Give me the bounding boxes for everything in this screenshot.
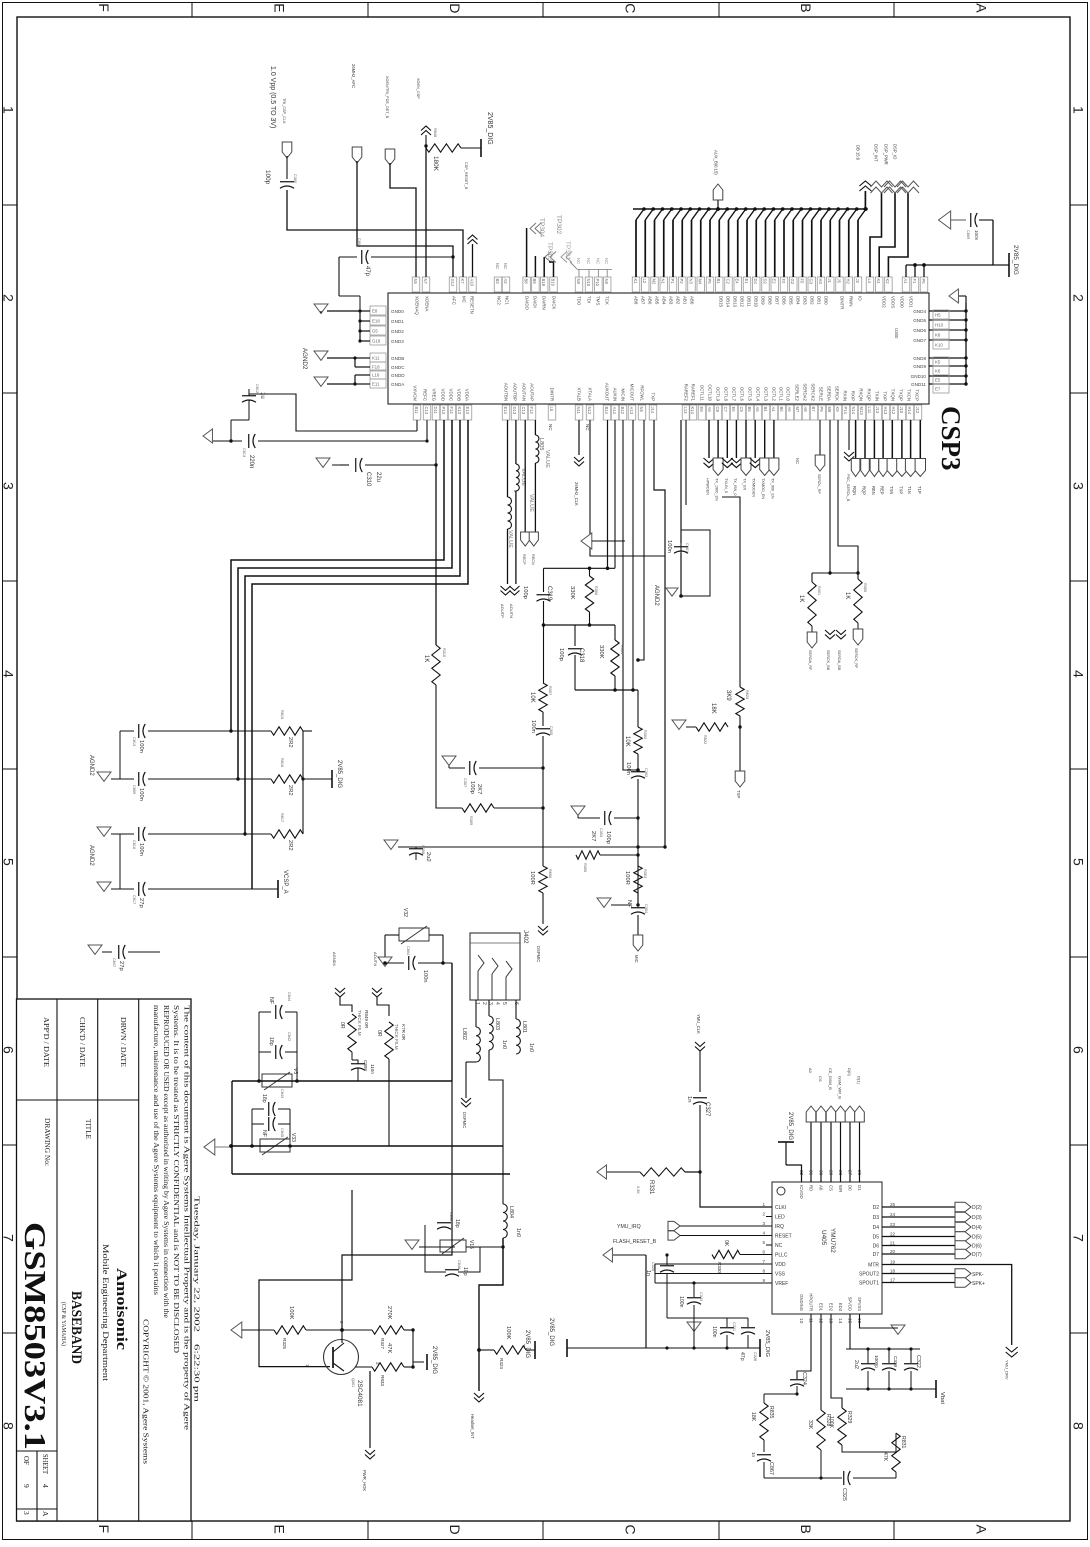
svg-text:L2: L2 bbox=[642, 279, 647, 284]
wire VDD rail bbox=[906, 264, 993, 266]
svg-text:R304: R304 bbox=[620, 645, 624, 654]
svg-text:TXMOD_EN: TXMOD_EN bbox=[761, 478, 765, 499]
svg-text:TITLE: TITLE bbox=[84, 1119, 93, 1139]
svg-text:D: D bbox=[447, 1525, 463, 1535]
svg-text:E9: E9 bbox=[699, 407, 704, 413]
power 2V85_DIG U405 bbox=[786, 1165, 802, 1182]
svg-text:THICK FILM: THICK FILM bbox=[357, 1010, 362, 1036]
svg-text:SERDA: SERDA bbox=[827, 386, 832, 401]
svg-text:B: B bbox=[798, 3, 814, 12]
svg-text:100p: 100p bbox=[522, 586, 528, 599]
svg-text:CSP3: CSP3 bbox=[936, 406, 966, 471]
svg-text:DSPMIC: DSPMIC bbox=[536, 946, 541, 962]
svg-text:100K: 100K bbox=[505, 1326, 511, 1340]
svg-text:10K: 10K bbox=[529, 692, 535, 703]
svg-text:RWN: RWN bbox=[849, 296, 854, 306]
svg-text:DINTR: DINTR bbox=[840, 296, 845, 309]
svg-text:XTALA: XTALA bbox=[588, 387, 593, 401]
svg-text:DSPMIC: DSPMIC bbox=[462, 1112, 467, 1128]
svg-text:V16: V16 bbox=[468, 1240, 474, 1249]
svg-text:R849 0R: R849 0R bbox=[364, 1010, 369, 1029]
svg-text:ICVDD: ICVDD bbox=[799, 1185, 804, 1199]
svg-text:3: 3 bbox=[1, 482, 17, 490]
wire collector net bbox=[342, 1081, 452, 1330]
chevron 26MHz_CLK bbox=[578, 420, 580, 455]
svg-text:Mobile Engineering Department: Mobile Engineering Department bbox=[101, 1244, 110, 1382]
svg-text:N9: N9 bbox=[604, 279, 609, 285]
svg-text:C812: C812 bbox=[255, 384, 259, 393]
svg-text:2V85_DIG: 2V85_DIG bbox=[336, 760, 342, 788]
svg-text:TXQN: TXQN bbox=[891, 389, 896, 401]
svg-text:2V85_DIG: 2V85_DIG bbox=[548, 1318, 554, 1346]
U300 top pin stubs left groups bbox=[412, 277, 420, 292]
svg-text:100p: 100p bbox=[605, 831, 611, 844]
svg-text:2u2: 2u2 bbox=[853, 1360, 859, 1369]
svg-text:VDDB: VDDB bbox=[457, 389, 462, 401]
svg-text:REPRODUCED OR USED except as: REPRODUCED OR USED except as authorized … bbox=[162, 1005, 170, 1318]
svg-text:TXIP: TXIP bbox=[883, 391, 888, 401]
resistor R822 18K bbox=[739, 716, 741, 727]
svg-text:DB2: DB2 bbox=[810, 296, 815, 305]
wire DB bus riser bbox=[864, 191, 866, 209]
svg-text:10p: 10p bbox=[462, 1267, 468, 1276]
svg-text:P14: P14 bbox=[843, 407, 848, 415]
svg-text:F14: F14 bbox=[449, 407, 454, 415]
svg-text:REN: REN bbox=[871, 486, 876, 495]
svg-text:B12: B12 bbox=[620, 407, 625, 415]
wire L804 net bbox=[503, 1090, 528, 1150]
wire C812 gnd stub bbox=[248, 407, 250, 420]
svg-text:L5: L5 bbox=[549, 407, 554, 412]
svg-text:R307: R307 bbox=[548, 686, 552, 695]
svg-text:RAREF2: RAREF2 bbox=[684, 384, 689, 402]
wire AFC bbox=[357, 161, 453, 277]
svg-text:2V85_DIG: 2V85_DIG bbox=[764, 1330, 770, 1358]
svg-text:C13: C13 bbox=[521, 407, 526, 415]
U300 left pin boxes bbox=[370, 306, 386, 315]
capacitor C843 18p bbox=[268, 1102, 270, 1116]
wire VDD bundle extra bbox=[224, 441, 427, 731]
svg-text:C303: C303 bbox=[599, 828, 603, 837]
svg-text:RAREF1: RAREF1 bbox=[691, 384, 696, 402]
svg-text:GND5: GND5 bbox=[913, 318, 926, 323]
resistor R331 3.3K bbox=[640, 1168, 685, 1176]
svg-text:L4: L4 bbox=[867, 279, 872, 284]
svg-text:270K: 270K bbox=[386, 1306, 392, 1320]
svg-text:TXP: TXP bbox=[898, 486, 903, 494]
svg-text:E7: E7 bbox=[935, 387, 941, 392]
capacitor C327 1n bbox=[693, 1097, 707, 1099]
svg-text:2: 2 bbox=[1071, 294, 1087, 302]
power 2V85_DIG Q301 bbox=[413, 1361, 424, 1363]
svg-text:K14: K14 bbox=[690, 407, 695, 415]
svg-text:0R: 0R bbox=[339, 1022, 345, 1029]
svg-text:R831: R831 bbox=[900, 1436, 906, 1449]
capacitor C304 NF bbox=[637, 893, 639, 905]
svg-text:J12: J12 bbox=[915, 407, 920, 414]
svg-text:R300: R300 bbox=[863, 583, 867, 592]
svg-text:C305: C305 bbox=[549, 726, 553, 735]
svg-text:RESETN: RESETN bbox=[470, 296, 475, 314]
svg-text:D11: D11 bbox=[433, 407, 438, 415]
svg-text:TP302: TP302 bbox=[555, 215, 562, 235]
wire VDD VSS VREF bbox=[655, 1263, 772, 1265]
svg-text:6: 6 bbox=[1, 1046, 17, 1054]
svg-text:DSP_PWR: DSP_PWR bbox=[884, 144, 889, 165]
wire serial rail bbox=[812, 572, 858, 574]
svg-text:J10: J10 bbox=[899, 407, 904, 414]
svg-text:H3: H3 bbox=[818, 279, 823, 285]
svg-text:22: 22 bbox=[890, 1232, 896, 1237]
svg-text:SERDA_RF: SERDA_RF bbox=[808, 650, 812, 671]
capacitor C322 bbox=[904, 1363, 918, 1365]
flag AUX_B bbox=[713, 184, 723, 200]
svg-text:1: 1 bbox=[474, 1002, 480, 1005]
svg-text:OCTL2: OCTL2 bbox=[772, 387, 777, 402]
capacitor C307 100p bbox=[469, 761, 471, 775]
svg-text:1n: 1n bbox=[645, 1270, 651, 1276]
svg-text:OCTL10: OCTL10 bbox=[708, 384, 713, 401]
capacitor C869 100n bbox=[948, 219, 966, 221]
svg-text:C321: C321 bbox=[732, 1322, 736, 1331]
svg-text:B11: B11 bbox=[414, 407, 419, 415]
test point TP303 bbox=[545, 252, 556, 263]
svg-text:D(4): D(4) bbox=[972, 1225, 982, 1231]
svg-text:T1P: T1P bbox=[917, 486, 922, 494]
svg-text:2: 2 bbox=[1, 294, 17, 302]
capacitor C848 10p bbox=[445, 1269, 459, 1271]
resistor R330 0K bbox=[712, 1250, 740, 1258]
ground C307 bbox=[442, 756, 456, 765]
svg-text:D13: D13 bbox=[512, 407, 517, 415]
svg-text:D2: D2 bbox=[762, 279, 767, 285]
svg-text:A: A bbox=[41, 1511, 50, 1517]
capacitor C300 100p bbox=[286, 156, 288, 179]
svg-text:REFC: REFC bbox=[423, 389, 428, 401]
wire RECP bbox=[524, 420, 526, 532]
svg-text:D0: D0 bbox=[848, 1185, 853, 1191]
wire collector row bbox=[306, 1329, 372, 1331]
ground varistor bbox=[378, 957, 392, 966]
svg-text:R850: R850 bbox=[548, 869, 552, 878]
wire bottom rail jack bbox=[232, 1145, 503, 1147]
svg-text:CS: CS bbox=[818, 1076, 823, 1082]
svg-text:DSP_INT: DSP_INT bbox=[874, 144, 879, 162]
svg-text:R329: R329 bbox=[846, 1411, 852, 1424]
svg-text:100n: 100n bbox=[678, 1296, 684, 1308]
svg-text:AB5: AB5 bbox=[655, 296, 660, 305]
svg-text:AOUTBN: AOUTBN bbox=[504, 383, 509, 401]
svg-text:J1: J1 bbox=[827, 279, 832, 284]
svg-text:J14: J14 bbox=[650, 407, 655, 414]
svg-text:DB15: DB15 bbox=[719, 296, 724, 308]
svg-text:V32: V32 bbox=[402, 908, 408, 917]
svg-text:6: 6 bbox=[1071, 1046, 1087, 1054]
wire VDD bundle bbox=[231, 420, 444, 731]
resistor R833 47K bbox=[344, 1371, 352, 1377]
capacitor C846 18p bbox=[432, 1246, 455, 1248]
svg-text:OCTL7: OCTL7 bbox=[732, 387, 737, 402]
capacitor C804 100n bbox=[408, 956, 410, 970]
svg-text:E11: E11 bbox=[372, 382, 380, 387]
wire V16 rails bbox=[425, 1246, 440, 1248]
svg-text:C813: C813 bbox=[242, 448, 246, 457]
svg-text:TXCP: TXCP bbox=[915, 389, 920, 401]
svg-text:XOEN/TRI_PDE_DET_B: XOEN/TRI_PDE_DET_B bbox=[385, 76, 389, 119]
svg-text:DB14: DB14 bbox=[726, 296, 731, 308]
svg-text:E1: E1 bbox=[744, 279, 749, 285]
wire varistor rail down bbox=[451, 963, 453, 1081]
svg-text:manufacture, maintenance and u: manufacture, maintenance and use of the … bbox=[152, 1005, 160, 1295]
svg-text:M2: M2 bbox=[651, 279, 656, 285]
svg-text:R331: R331 bbox=[648, 1180, 654, 1195]
svg-text:NC: NC bbox=[585, 424, 590, 431]
svg-text:J13: J13 bbox=[875, 407, 880, 414]
ground R331 bbox=[597, 1165, 606, 1179]
svg-text:RXIP: RXIP bbox=[851, 391, 856, 401]
svg-text:NC: NC bbox=[604, 258, 609, 264]
capacitor C303 100p bbox=[604, 811, 606, 825]
U405 top flags bbox=[810, 1122, 812, 1182]
wire DSP staircases bbox=[866, 277, 874, 292]
capacitor C817 27p row4 bbox=[138, 882, 140, 896]
svg-text:D4: D4 bbox=[753, 279, 758, 285]
svg-text:6:22:30 pm: 6:22:30 pm bbox=[193, 1344, 201, 1403]
svg-text:C844: C844 bbox=[287, 992, 291, 1001]
svg-text:MC: MC bbox=[462, 296, 467, 303]
svg-text:TP304: TP304 bbox=[538, 218, 545, 238]
svg-text:H2: H2 bbox=[846, 279, 851, 285]
svg-text:ED2: ED2 bbox=[829, 1303, 834, 1312]
svg-text:NF: NF bbox=[261, 1130, 267, 1137]
svg-text:E2: E2 bbox=[772, 279, 777, 285]
svg-text:VDD0: VDD0 bbox=[900, 296, 905, 308]
svg-text:AFC: AFC bbox=[452, 296, 457, 305]
inductor L802 bbox=[475, 1000, 477, 1027]
svg-text:C813: C813 bbox=[132, 737, 136, 746]
svg-text:R309: R309 bbox=[469, 816, 473, 825]
svg-text:V33: V33 bbox=[290, 1133, 296, 1142]
svg-text:2K7: 2K7 bbox=[590, 831, 596, 841]
svg-text:H12: H12 bbox=[891, 407, 896, 415]
wire XOEN bbox=[390, 163, 416, 277]
varistor V16 bbox=[440, 1240, 466, 1252]
svg-text:2K7: 2K7 bbox=[476, 784, 482, 794]
capacitor 2u2 bbox=[861, 1363, 875, 1365]
wire B8 to TP bbox=[526, 228, 528, 277]
wire VDDA down bbox=[435, 465, 437, 645]
svg-text:IRQ: IRQ bbox=[775, 1224, 784, 1230]
svg-text:D3: D3 bbox=[873, 1215, 880, 1221]
svg-text:C847: C847 bbox=[112, 958, 116, 967]
capacitor C321 100n bbox=[720, 1327, 734, 1329]
svg-text:NC: NC bbox=[576, 258, 581, 264]
svg-text:C307: C307 bbox=[463, 778, 467, 787]
wire long loop down bbox=[451, 1081, 453, 1310]
svg-text:VDDS: VDDS bbox=[891, 296, 896, 308]
svg-text:VALUE: VALUE bbox=[544, 450, 550, 468]
svg-text:C5: C5 bbox=[739, 407, 744, 413]
wire AUXOUT down bbox=[607, 420, 609, 568]
svg-text:C817: C817 bbox=[132, 895, 136, 904]
svg-text:C843: C843 bbox=[280, 1089, 284, 1098]
svg-text:DB13: DB13 bbox=[733, 296, 738, 308]
inductor L804 1n0 bbox=[503, 1204, 507, 1238]
inductor L805 wire1 bbox=[507, 420, 509, 497]
svg-text:NC: NC bbox=[595, 258, 600, 264]
resistor R301 1K bbox=[808, 582, 816, 626]
svg-text:F13: F13 bbox=[529, 407, 534, 415]
wire mid down rail bbox=[543, 625, 545, 683]
svg-text:B8: B8 bbox=[523, 279, 528, 285]
svg-text:GND10: GND10 bbox=[911, 374, 927, 379]
svg-text:VDD: VDD bbox=[775, 1262, 786, 1268]
capacitor C326 1n bbox=[660, 1265, 674, 1267]
svg-text:R325: R325 bbox=[282, 1338, 287, 1349]
ground crystal bbox=[666, 588, 678, 596]
svg-text:TX_1900_EN: TX_1900_EN bbox=[715, 478, 719, 501]
svg-text:C: C bbox=[623, 1525, 639, 1535]
svg-text:1: 1 bbox=[762, 1202, 765, 1207]
svg-text:SERDL_RF: SERDL_RF bbox=[817, 474, 821, 495]
wire XTALA to crystal bbox=[590, 420, 681, 610]
flag RECN bbox=[529, 532, 538, 546]
capacitor C328 47p bbox=[741, 1327, 755, 1329]
svg-text:0R: 0R bbox=[376, 1030, 382, 1037]
svg-text:GND6: GND6 bbox=[913, 328, 926, 333]
svg-text:DB0: DB0 bbox=[824, 296, 829, 305]
svg-text:K9: K9 bbox=[835, 407, 840, 413]
svg-text:C323: C323 bbox=[699, 1292, 703, 1301]
svg-text:DRWN / DATE: DRWN / DATE bbox=[119, 1017, 128, 1067]
resistor R850 100R bbox=[539, 866, 547, 893]
svg-text:PSC_SERDL_B: PSC_SERDL_B bbox=[846, 474, 850, 502]
svg-text:A5: A5 bbox=[755, 407, 760, 413]
svg-text:C327: C327 bbox=[704, 1102, 710, 1117]
svg-text:A8: A8 bbox=[803, 407, 808, 413]
svg-text:47K: 47K bbox=[386, 1343, 392, 1353]
svg-text:THICK FILM: THICK FILM bbox=[394, 1024, 399, 1050]
wire rail 1081 bbox=[232, 1080, 452, 1082]
svg-text:R310: R310 bbox=[442, 648, 446, 657]
svg-text:8: 8 bbox=[1, 1422, 17, 1430]
svg-text:MTR: MTR bbox=[868, 1263, 879, 1269]
svg-text:100n: 100n bbox=[138, 740, 144, 753]
wire emitter down bbox=[369, 1371, 371, 1448]
svg-text:E5: E5 bbox=[935, 378, 941, 383]
svg-text:RFCWL: RFCWL bbox=[640, 385, 645, 401]
ground YMU left bbox=[603, 1248, 612, 1262]
svg-text:B5: B5 bbox=[747, 407, 752, 413]
svg-text:SPVSS: SPVSS bbox=[857, 1297, 862, 1311]
svg-text:F18: F18 bbox=[372, 365, 380, 370]
svg-text:9: 9 bbox=[22, 1484, 31, 1488]
svg-text:10K: 10K bbox=[624, 736, 630, 747]
svg-text:SERLE: SERLE bbox=[819, 387, 824, 401]
svg-text:GND8: GND8 bbox=[913, 356, 926, 361]
svg-text:OCTL6: OCTL6 bbox=[740, 387, 745, 402]
chevron AOUTN bbox=[510, 586, 520, 595]
svg-text:RESET: RESET bbox=[775, 1234, 792, 1240]
svg-text:DB1: DB1 bbox=[817, 296, 822, 305]
svg-text:A10: A10 bbox=[469, 279, 474, 287]
svg-text:NC: NC bbox=[775, 1243, 783, 1249]
title block grid bbox=[56, 999, 58, 1521]
wire B18 to TP bbox=[543, 257, 545, 277]
ground row4 bbox=[97, 882, 111, 891]
svg-text:C322: C322 bbox=[915, 1355, 921, 1368]
svg-text:NF: NF bbox=[268, 997, 274, 1004]
resistor R325 100K bbox=[274, 1326, 306, 1334]
wire C813 long bbox=[258, 440, 427, 442]
svg-text:2V85_DIG: 2V85_DIG bbox=[486, 112, 493, 145]
flag MIC bbox=[637, 915, 639, 935]
svg-text:22u: 22u bbox=[375, 472, 381, 482]
svg-text:K2: K2 bbox=[885, 279, 890, 285]
svg-text:F1: F1 bbox=[912, 279, 917, 285]
svg-text:GND3: GND3 bbox=[391, 339, 404, 344]
ground C308 bbox=[384, 840, 398, 849]
U405 data out wires and flags bbox=[882, 1206, 955, 1208]
svg-text:(CSP & YAMAHA): (CSP & YAMAHA) bbox=[60, 1302, 67, 1346]
svg-text:AOUTAN: AOUTAN bbox=[522, 383, 527, 401]
svg-text:L803: L803 bbox=[494, 1018, 500, 1030]
wire C809 gnd bbox=[339, 295, 360, 297]
svg-text:H10: H10 bbox=[935, 323, 944, 328]
resistor R327 270K bbox=[372, 1326, 404, 1334]
resistor R309 2K7 bbox=[462, 804, 494, 812]
svg-text:VREG: VREG bbox=[432, 389, 437, 402]
ground YMU bottom bbox=[891, 1325, 905, 1334]
svg-text:T1N: T1N bbox=[907, 486, 912, 494]
ground C310 bbox=[316, 458, 330, 467]
inductor L806 wire2 bbox=[515, 420, 517, 464]
svg-text:18K: 18K bbox=[710, 703, 716, 714]
svg-text:7: 7 bbox=[1, 1234, 17, 1242]
svg-text:100n: 100n bbox=[138, 843, 144, 856]
svg-text:47p: 47p bbox=[364, 266, 370, 277]
svg-text:K1: K1 bbox=[633, 279, 638, 285]
svg-text:R848: R848 bbox=[433, 128, 437, 137]
svg-text:2V85_DIG: 2V85_DIG bbox=[787, 1112, 793, 1140]
svg-text:B10: B10 bbox=[550, 279, 555, 287]
capacitor C813 220n bbox=[213, 440, 242, 442]
ground R822 bbox=[672, 720, 686, 729]
wire YMU left bottom rail bbox=[646, 1347, 760, 1349]
svg-text:GND4: GND4 bbox=[913, 309, 926, 314]
svg-text:110n: 110n bbox=[370, 1064, 375, 1074]
svg-text:21: 21 bbox=[890, 1241, 896, 1246]
svg-text:OCTL11: OCTL11 bbox=[700, 385, 705, 402]
svg-text:P13: P13 bbox=[441, 407, 446, 415]
svg-text:TCK: TCK bbox=[605, 296, 610, 305]
svg-text:20: 20 bbox=[890, 1249, 896, 1254]
svg-text:R324: R324 bbox=[499, 1358, 504, 1369]
svg-text:P9: P9 bbox=[819, 407, 824, 413]
wire RAREF down bbox=[685, 420, 687, 505]
wire NC jtag rail bbox=[570, 262, 577, 269]
svg-text:3: 3 bbox=[762, 1221, 765, 1226]
svg-text:OCTL5: OCTL5 bbox=[748, 387, 753, 402]
svg-text:8: 8 bbox=[762, 1269, 765, 1274]
capacitor C813b 100n row1 bbox=[138, 724, 140, 738]
svg-text:SERCK_RF: SERCK_RF bbox=[854, 648, 858, 669]
svg-text:0K: 0K bbox=[723, 1240, 729, 1247]
wire MTR bbox=[882, 1265, 1012, 1346]
svg-text:1n: 1n bbox=[751, 1452, 756, 1458]
svg-text:100n: 100n bbox=[138, 788, 144, 801]
svg-text:AB7: AB7 bbox=[641, 296, 646, 305]
